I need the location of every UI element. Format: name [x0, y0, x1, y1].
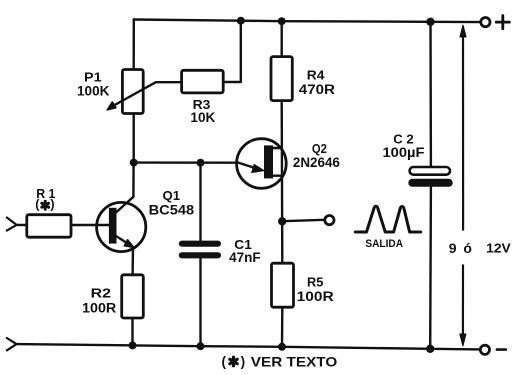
node junction top rail / R3 [237, 17, 245, 25]
label (*) of R1 [35, 198, 54, 212]
svg-text:R5: R5 [307, 274, 323, 289]
node junction bottom / C2 [426, 345, 434, 353]
wire wiper to R3 [156, 81, 182, 83]
wire P1 bottom to mid node [132, 114, 134, 163]
resistor R4 [271, 57, 292, 101]
node + terminal [481, 18, 490, 27]
wire top supply rail [134, 20, 481, 23]
svg-text:SALIDA: SALIDA [365, 238, 403, 250]
capacitor C1 [179, 241, 221, 259]
svg-text:Q1: Q1 [163, 188, 181, 203]
resistor R3 [182, 70, 224, 93]
wire Q1 collector up [132, 163, 135, 197]
wire R3 right up to top rail [223, 21, 241, 82]
svg-text:470R: 470R [299, 82, 335, 97]
svg-text:100R: 100R [297, 289, 334, 304]
svg-text:): ) [241, 354, 246, 369]
svg-text:P1: P1 [84, 70, 102, 85]
wire C2 bottom lead [429, 187, 432, 349]
node output terminal [325, 216, 334, 225]
node junction P1 / Q1 collector / mid wire [130, 159, 138, 167]
label (*) VER TEXTO note [222, 353, 338, 369]
node - sign label [497, 348, 506, 351]
resistor R2 [122, 275, 144, 318]
svg-text:12V: 12V [486, 241, 511, 256]
transistor Q1 [97, 197, 146, 252]
wire R5 bottom lead [281, 307, 284, 347]
transistor Q2 [236, 139, 286, 189]
star asterisk R1 [42, 201, 49, 209]
svg-text:): ) [50, 198, 54, 212]
wire bottom return rail [17, 344, 481, 349]
node junction mid wire / C1 [197, 159, 205, 167]
svg-text:R4: R4 [307, 67, 325, 82]
capacitor C2 [408, 167, 452, 187]
wire R4 top lead [281, 21, 283, 56]
node junction bottom / R2 [129, 341, 137, 349]
svg-text:R2: R2 [91, 286, 111, 301]
potentiometer P1 wiper arrow [107, 82, 156, 110]
potentiometer P1 [122, 70, 143, 114]
wire input chevron [7, 218, 17, 231]
svg-text:(: ( [222, 354, 227, 369]
svg-text:ó: ó [463, 240, 472, 256]
wire C1 bottom lead [199, 258, 201, 346]
svg-text:9: 9 [449, 240, 457, 256]
svg-text:100K: 100K [77, 84, 110, 99]
svg-text:BC548: BC548 [149, 203, 195, 218]
node - terminal [480, 345, 489, 354]
wire voltage arrow upper segment [462, 31, 464, 230]
waveform salida icon [355, 206, 420, 232]
wire bottom chevron [7, 338, 17, 350]
wire C2 top lead [429, 22, 432, 167]
svg-text:VER TEXTO: VER TEXTO [251, 353, 338, 369]
node junction Q2 B1 / output [278, 217, 286, 225]
wire output stub [282, 220, 324, 221]
node + sign label [496, 16, 509, 29]
wire C1 top lead [199, 163, 201, 241]
resistor R5 [272, 263, 294, 307]
wire Q1 emitter down to R2 [131, 248, 134, 275]
label 9 o 12V [449, 240, 511, 256]
node junction top rail / R4 [278, 17, 286, 25]
node junction top rail / C2 [426, 18, 434, 26]
wire voltage arrow lower head [460, 334, 466, 346]
wire voltage arrow upper head [460, 25, 466, 37]
wire Q1 base from R1 [71, 224, 109, 226]
svg-text:100R: 100R [82, 301, 117, 316]
svg-text:10K: 10K [190, 110, 215, 125]
node junction bottom / C1 [197, 342, 205, 350]
star asterisk note [230, 357, 237, 366]
wire input to R1 [17, 224, 27, 227]
svg-text:Q2: Q2 [312, 141, 327, 156]
wire mid horizontal to Q2 emitter [134, 161, 237, 163]
wire R4 to Q2 bases and down to R5 [281, 101, 284, 264]
svg-text:2N2646: 2N2646 [293, 155, 340, 170]
resistor R1 [27, 215, 71, 238]
svg-text:47nF: 47nF [229, 250, 261, 265]
wire R2 bottom [131, 318, 133, 345]
node junction bottom / R5 [278, 343, 286, 351]
svg-text:100µF: 100µF [383, 145, 425, 160]
wire top rail corner down to P1 [132, 20, 135, 70]
wire voltage arrow lower segment [462, 265, 464, 340]
